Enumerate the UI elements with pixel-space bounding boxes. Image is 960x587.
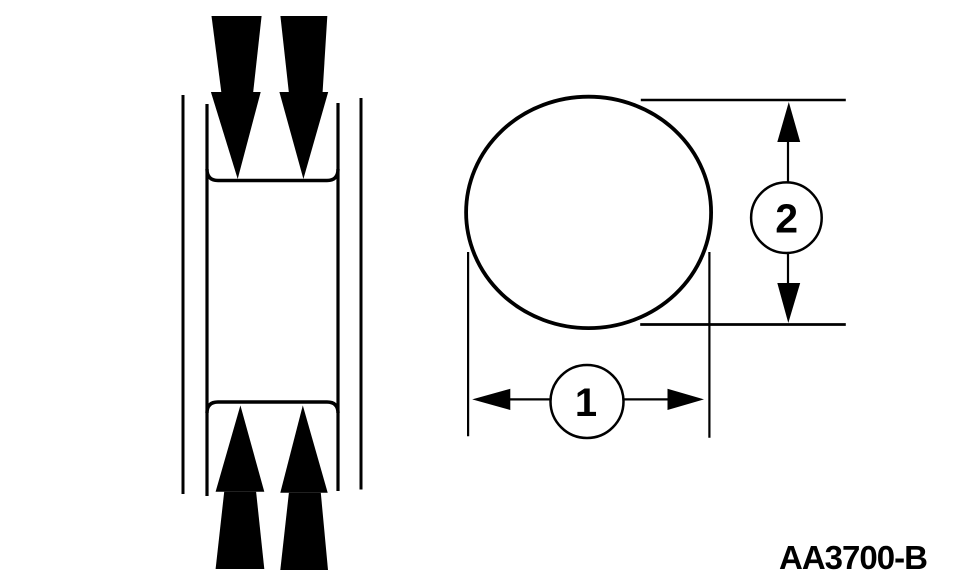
seal cross-section circle [466,97,711,328]
dimension 1 left shaft [508,398,551,400]
dimension 2 top reference line [641,99,846,101]
dimension 1 right arrowhead [668,389,705,410]
dimension 1 left extension line [467,252,469,436]
seal top face horizontal line with fillets [207,169,338,181]
balloon circle 1 [551,365,624,438]
balloon circle 2 [751,182,822,253]
dimension 1 right extension line [708,252,710,438]
svg-text:AA3700-B: AA3700-B [779,539,927,576]
dimension 2 upper shaft [787,140,789,183]
top-right compression arrow (down) [279,16,328,179]
svg-text:1: 1 [575,381,597,425]
top-left compression arrow (down) [211,16,262,179]
dimension 2 upper arrowhead [777,102,800,142]
dimension 2 bottom reference line [640,323,846,326]
bottom-left compression arrow (up) [216,405,265,569]
seal side inner-left vertical line [205,104,208,496]
seal side inner-right vertical line [336,103,339,491]
seal bottom face horizontal line with fillets [207,402,338,413]
dimension 1 left arrowhead [472,389,510,410]
dimension 2 lower shaft [787,252,789,285]
bottom-right compression arrow (up) [280,405,328,570]
gauge wall outer-right vertical line [360,98,363,490]
dimension 1 right shaft [623,398,669,400]
svg-text:2: 2 [775,196,798,242]
gauge wall outer-left vertical line [182,95,185,494]
dimension 2 lower arrowhead [777,283,800,323]
